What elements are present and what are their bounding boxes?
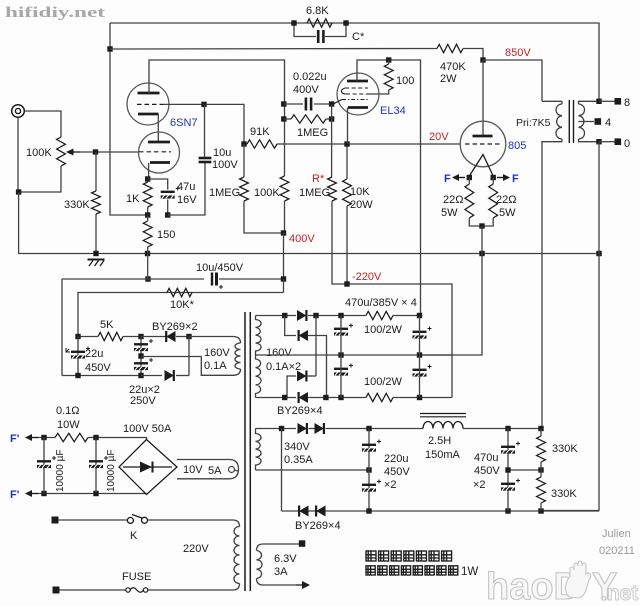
wire: 10u top lead [204, 104, 206, 157]
wire: 1MEG-h left lead [284, 118, 291, 120]
resistor 150 [143, 221, 152, 247]
svg-text:6.8K: 6.8K [306, 5, 329, 17]
bridge rectifier 100V 50A [119, 440, 177, 495]
svg-text:×2: ×2 [384, 479, 397, 491]
winding 340V [256, 429, 262, 471]
wire: ground bus [19, 192, 599, 254]
22u450V plus-arrow [66, 348, 70, 352]
wire: mains N to fuse [59, 589, 126, 591]
wire: 1MEG bottom to 400V node [244, 201, 284, 233]
wire: diode top right lead [176, 336, 189, 338]
junction bot cap2 [417, 395, 422, 400]
resistor 22R 5W left [465, 184, 474, 218]
wire: 150 top lead [147, 215, 149, 221]
6SN7 lower cathode [150, 161, 170, 164]
junction 1MEG-left [281, 116, 286, 121]
wire: bias winding top lead [189, 336, 233, 338]
wire: 340V mid (winding bottom) [256, 469, 370, 471]
wire: D3 right lead [307, 375, 317, 377]
wire: 330K upper leads [540, 429, 542, 437]
capacitor 470u upper [501, 446, 515, 448]
resistor 100 [384, 64, 393, 90]
wire: 91K left lead [244, 143, 247, 145]
wire: cap col 1 [340, 316, 342, 398]
svg-text:FUSE: FUSE [122, 571, 151, 583]
capacitor 22ux2 upper [134, 343, 148, 345]
wire: 400V node down [283, 233, 285, 279]
wire: D2 to bottom [308, 336, 327, 398]
svg-text:340V: 340V [284, 441, 310, 453]
terminal 0 [615, 138, 622, 145]
junction 1K/215-wire [145, 212, 150, 217]
wire: cap column A [43, 438, 45, 494]
wire: HV top rail 3 [393, 315, 421, 317]
svg-text:100/2W: 100/2W [364, 324, 403, 336]
wire: 470u column [507, 429, 509, 512]
svg-text:Pri:7K5: Pri:7K5 [516, 117, 551, 129]
resistor 10K 20W [343, 179, 352, 206]
wire: jack hot to pot top [25, 111, 62, 137]
wire: cathode node to 10u column [168, 162, 205, 216]
wire: 47u bottom lead [167, 200, 169, 216]
wire: 340V left vertical [281, 429, 283, 512]
junction botL [282, 395, 287, 400]
junction 470u bottom [505, 508, 510, 513]
junction 220u mid [366, 467, 371, 472]
junction cathode/1K/47u [145, 176, 150, 181]
winding 6.3V [257, 544, 300, 551]
wire: C* branch right [325, 23, 346, 37]
svg-text:100K: 100K [254, 187, 280, 199]
diode 340V D2 [315, 423, 324, 434]
wire: C* branch left [294, 23, 316, 37]
svg-text:22u: 22u [85, 348, 103, 360]
wire: 10K bottom lead [346, 206, 348, 284]
svg-text:5K: 5K [100, 319, 114, 331]
svg-text:220u: 220u [384, 453, 408, 465]
resistor 0.1R 10W [55, 433, 88, 441]
resistor 6.8K [307, 19, 332, 27]
wire: switch to 220V winding [148, 519, 234, 521]
wire: fuse to 220V winding [148, 589, 234, 591]
wire: D3 left lead [287, 376, 296, 398]
junction filament left [467, 175, 472, 180]
capacitor 47u/16V [161, 191, 175, 193]
svg-text:0: 0 [624, 138, 630, 150]
svg-text:2W: 2W [440, 73, 457, 85]
resistor 330K [92, 191, 101, 214]
6SN7 upper cathode [138, 113, 159, 116]
wire: jack shield down [17, 117, 19, 192]
tube EL34 envelope [337, 73, 379, 115]
wire: 805 cathode down to +160 rail [419, 226, 482, 355]
wire: filament right lead [492, 178, 494, 185]
svg-text:F: F [512, 173, 519, 185]
6SN7 upper plate [138, 92, 160, 95]
junction bus/0-tap [596, 251, 601, 256]
junction 330K bottom [538, 508, 543, 513]
wire: bottom of bias column [62, 375, 141, 377]
svg-text:10V: 10V [183, 464, 203, 476]
junction bus/150 [145, 251, 150, 256]
svg-text:91K: 91K [250, 126, 270, 138]
wire: heater top rail [38, 437, 55, 439]
capacitor C* [317, 30, 320, 43]
svg-text:160V: 160V [266, 347, 292, 359]
capacitor 470u bank 4 [413, 369, 427, 371]
svg-text:8: 8 [624, 97, 630, 109]
junction bus/330K [93, 251, 98, 256]
svg-text:150: 150 [157, 229, 175, 241]
diode BY269 bias lower [165, 370, 174, 381]
wire: x283 down to 10K* wire [283, 279, 285, 293]
wire: 10K* run [78, 293, 284, 337]
wire: HV bottom rail [256, 397, 297, 399]
svg-text:2.5H: 2.5H [428, 435, 451, 447]
junction 470u top [505, 426, 510, 431]
junction mid cap1 [338, 352, 343, 357]
svg-text:R*: R* [312, 173, 325, 185]
capacitor 470u lower [501, 483, 515, 485]
svg-text:F': F' [10, 433, 20, 445]
svg-text:470u/385V × 4: 470u/385V × 4 [345, 297, 417, 309]
wire: x189 vertical [188, 337, 190, 376]
junction 400V node [281, 230, 286, 235]
wire: bottom rail [282, 510, 600, 512]
EL34 control grid g1 [342, 99, 369, 101]
6.3V bottom arrow [296, 584, 302, 586]
svg-text:220V: 220V [183, 543, 209, 555]
junction 340V topL [279, 426, 284, 431]
wire: 470u/330K mid link [508, 469, 541, 471]
wire: 330K bottom lead [95, 214, 97, 254]
winding 160V secondary upper [256, 316, 262, 356]
diode HV D4 [299, 392, 308, 403]
wire: g2 to 100R bottom [368, 90, 389, 94]
wire: 340V top rail 3 [326, 428, 424, 430]
wire: 100R top lead [388, 60, 390, 64]
note line 1 (Chinese: mono channel design) [366, 551, 376, 561]
wire: 470K right lead [463, 49, 483, 61]
wire: 330K lower lead [540, 503, 542, 511]
EL34 cathode [348, 106, 368, 109]
junction 850V node [480, 57, 485, 62]
wire: 279 rail right [219, 278, 284, 280]
junction filament right [491, 175, 496, 180]
wire: diode row top [141, 336, 167, 338]
svg-text:330K: 330K [64, 199, 90, 211]
potentiometer 100K [57, 137, 66, 166]
wire: HV top rail [256, 315, 297, 317]
junction heater botR [93, 491, 98, 496]
svg-text:10W: 10W [57, 419, 80, 431]
wire: 805 plate lead [482, 60, 484, 136]
tube 805 envelope [460, 121, 506, 167]
svg-text:450V: 450V [384, 466, 410, 478]
wire: heater top rail 2 [88, 438, 147, 440]
OPT primary winding [556, 104, 562, 139]
winding 10V 5A loop [177, 460, 239, 479]
svg-text:160V: 160V [204, 347, 230, 359]
svg-text:020211: 020211 [599, 545, 635, 557]
wire: 279 rail left [62, 278, 204, 280]
svg-text:1K: 1K [126, 193, 140, 205]
junction 100R top [386, 57, 391, 62]
wire: feedback vertical drop to cathode node [110, 23, 148, 215]
wire: heater bottom rail [38, 493, 147, 495]
wire: OPT secondary bottom lead [579, 139, 600, 142]
wire: cap col 2 [419, 316, 421, 398]
6SN7 lower plate [148, 141, 170, 144]
junction 22R center tap [479, 223, 484, 228]
OPT secondary winding [579, 104, 585, 139]
svg-text:450V: 450V [474, 465, 500, 477]
resistor 100/2W upper [366, 311, 393, 319]
diode HV D1 [297, 310, 306, 321]
svg-text:22Ω: 22Ω [496, 194, 516, 206]
F-prime arrow bottom [29, 493, 38, 495]
wire: OPT primary top stub [561, 101, 563, 104]
switch K [127, 517, 133, 523]
wire: R* bottom to -220V [332, 201, 347, 284]
svg-text:4: 4 [605, 117, 611, 129]
capacitor 470u bank 2 [334, 368, 348, 370]
note line 2 (Chinese: unmarked resistors 1W) [366, 566, 375, 575]
wire: filament left lead [468, 178, 470, 185]
wire: EL34 cathode lead [347, 108, 349, 145]
wire: 330K mid leads [540, 462, 542, 477]
svg-text:1MEG: 1MEG [209, 187, 240, 199]
svg-text:0.1A×2: 0.1A×2 [266, 361, 301, 373]
wire: 47u top lead [148, 179, 168, 190]
capacitor 10000uF B [89, 460, 103, 462]
capacitor 220u lower [362, 484, 376, 486]
wire: 330K top lead [95, 152, 97, 191]
wire: coupling cap right lead [314, 103, 332, 105]
svg-text:150mA: 150mA [425, 449, 461, 461]
power transformer core [245, 312, 250, 591]
svg-text:10000 µF: 10000 µF [106, 450, 117, 492]
wire: 5K right lead [123, 336, 141, 338]
wire: HV bottom rail 2 [308, 397, 366, 399]
wire: HV mid rail [256, 354, 453, 356]
wire: HV bottom rail 3 [393, 397, 452, 399]
svg-text:10u: 10u [213, 147, 231, 159]
svg-text:470K: 470K [440, 61, 466, 73]
svg-text:BY269×4: BY269×4 [295, 520, 341, 532]
svg-text:805: 805 [508, 140, 526, 152]
resistor 1MEG horizontal [291, 115, 326, 123]
ground symbol 777 [88, 259, 105, 261]
wire: 1MEG x244 leads [243, 144, 245, 177]
wire: cap column B [95, 438, 97, 494]
wire: 6SN7 upper grid lead [163, 104, 244, 144]
junction EL34 grid node [329, 101, 334, 106]
junction 22u450V bottom [75, 373, 80, 378]
EL34 g2 wrap lead [341, 88, 346, 94]
junction 400V/279 rail [281, 276, 286, 281]
junction cap-left [281, 101, 286, 106]
wire: feedback from 8-ohm tap, top run [110, 23, 599, 101]
wire: 91K right lead [277, 143, 285, 145]
svg-text:3A: 3A [274, 566, 288, 578]
diode 340V D3 [299, 506, 308, 517]
junction 1MEG-right [329, 116, 334, 121]
svg-text:20W: 20W [350, 199, 373, 211]
pot wiper arrow [69, 151, 80, 153]
terminal mains N [53, 587, 60, 594]
junction 330K top [538, 426, 543, 431]
svg-text:F': F' [10, 489, 20, 501]
svg-text:850V: 850V [505, 47, 531, 59]
svg-text:1W: 1W [461, 566, 478, 578]
junction mid cap2 [417, 352, 422, 357]
wire: choke out [463, 428, 542, 430]
fuse [126, 588, 130, 592]
diode BY269 bias upper [166, 331, 175, 342]
wire: 4 tap stub [579, 121, 595, 123]
capacitor 22ux2 lower [134, 362, 148, 364]
wire: 10K top lead [346, 144, 348, 179]
junction botR [323, 395, 328, 400]
junction topL [282, 313, 287, 318]
wire: 8 tap stub [599, 100, 615, 102]
junction top cap1 [338, 313, 343, 318]
wire: 0-tap ground drop [542, 142, 599, 511]
junction 8-tap [596, 99, 601, 104]
junction 10K/-220V [344, 281, 349, 286]
svg-text:400V: 400V [293, 84, 319, 96]
wire: 220u column [368, 429, 370, 512]
805 grid [465, 143, 501, 145]
svg-text:5A: 5A [208, 465, 222, 477]
svg-text:250V: 250V [130, 395, 156, 407]
resistor 470K 2W [437, 44, 463, 52]
svg-text:hifidiy.net: hifidiy.net [5, 5, 105, 21]
svg-text:100V: 100V [212, 159, 238, 171]
wire: OPT primary bottom lead [542, 142, 562, 429]
diode 340V D1 [298, 423, 307, 434]
terminal 6.3V top [299, 540, 306, 547]
resistor 330K upper [537, 436, 546, 462]
EL34 plate [347, 80, 368, 83]
terminal mains L [52, 517, 59, 524]
junction 22ux2 bottom [138, 373, 143, 378]
wire: coupling cap left lead [284, 103, 303, 105]
F-prime arrow top [29, 437, 38, 439]
junction bus/805-cathode [479, 251, 484, 256]
junction 0-tap [596, 139, 601, 144]
capacitor 22u/450V [71, 351, 85, 353]
terminal 8 [615, 98, 622, 105]
svg-text:1MEG: 1MEG [299, 187, 330, 199]
junction top cap2 [417, 313, 422, 318]
wire: mains L to switch [58, 519, 127, 521]
805 filament [469, 155, 493, 177]
junction bus/400V-filter [145, 276, 150, 281]
svg-text:6.3V: 6.3V [274, 553, 297, 565]
svg-text:BY269×4: BY269×4 [277, 405, 323, 417]
svg-text:100/2W: 100/2W [364, 376, 403, 388]
wire: 0 tap stub [599, 141, 615, 143]
wire: OPT primary top lead [542, 100, 562, 102]
junction shield/pot-bottom [16, 189, 21, 194]
svg-text:-220V: -220V [352, 271, 382, 283]
junction 22ux2 top [138, 334, 143, 339]
filament F arrow left [456, 177, 465, 179]
svg-text:10K*: 10K* [170, 299, 195, 311]
wire: 20V line (EL34 cathode to 805 grid) [285, 143, 461, 145]
resistor R* 1MEG [328, 177, 337, 201]
svg-text:0.022u: 0.022u [293, 71, 327, 83]
junction heater topL [41, 435, 46, 440]
wire: 1K bottom lead [147, 207, 149, 215]
6SN7 upper grid [137, 103, 163, 105]
svg-text:10u/450V: 10u/450V [196, 262, 244, 274]
tube 6SN7 lower triode envelope [139, 132, 180, 173]
svg-text:BY269×2: BY269×2 [152, 321, 198, 333]
svg-text:.net: .net [601, 582, 638, 605]
wire: -220V run [347, 284, 452, 398]
svg-text:470u: 470u [474, 452, 498, 464]
svg-text:100: 100 [396, 75, 414, 87]
svg-text:1MEG: 1MEG [297, 127, 328, 139]
winding 160V secondary lower [256, 355, 262, 398]
terminal 4 [595, 118, 602, 125]
svg-text:450V: 450V [85, 362, 111, 374]
capacitor 470u bank 1 [334, 328, 348, 330]
wire: 340V top rail [256, 428, 297, 430]
svg-text:100V 50A: 100V 50A [123, 423, 172, 435]
diode HV D2 [299, 330, 308, 341]
wire: pot bottom to jack shield [19, 166, 61, 192]
capacitor 220u upper [362, 444, 376, 446]
wire: grid node down to R* [331, 104, 333, 177]
svg-text:10000 µF: 10000 µF [55, 450, 66, 492]
junction heater botL [41, 491, 46, 496]
capacitor 470u bank 3 [413, 331, 427, 333]
wire: diode bottom right lead [176, 375, 189, 377]
svg-text:100K: 100K [26, 147, 52, 159]
svg-text:0.1A: 0.1A [204, 360, 227, 372]
svg-text:5W: 5W [499, 207, 516, 219]
wire: EL34 plate lead [357, 60, 421, 316]
junction 220u bottom [366, 508, 371, 513]
junction 6.8K left [291, 20, 296, 25]
wire: 22ux2 column [140, 337, 142, 376]
wire: wiper to 6SN7 grid [80, 151, 139, 153]
junction 330K mid [538, 467, 543, 472]
wire: x284 vertical cap junction run [284, 104, 286, 176]
svg-text:20V: 20V [429, 131, 449, 143]
resistor 100/2W lower [366, 393, 393, 401]
svg-text:5W: 5W [441, 207, 458, 219]
resistor 10K* [167, 288, 192, 296]
resistor 5K [98, 332, 123, 340]
junction heater topR [93, 435, 98, 440]
junction 5K left / 22u450V top [75, 334, 80, 339]
svg-text:0.35A: 0.35A [284, 454, 313, 466]
svg-text:0.1Ω: 0.1Ω [56, 405, 80, 417]
capacitor 0.022u/400V [305, 98, 308, 111]
svg-text:22Ω: 22Ω [443, 194, 463, 206]
capacitor 10000uF A [37, 460, 51, 462]
diode HV D3 [297, 371, 306, 382]
svg-text:400V: 400V [289, 233, 315, 245]
resistor 91K [247, 140, 277, 148]
wire: 470K B+ run y=49 [110, 48, 437, 51]
wire: D2 branch [285, 316, 296, 336]
